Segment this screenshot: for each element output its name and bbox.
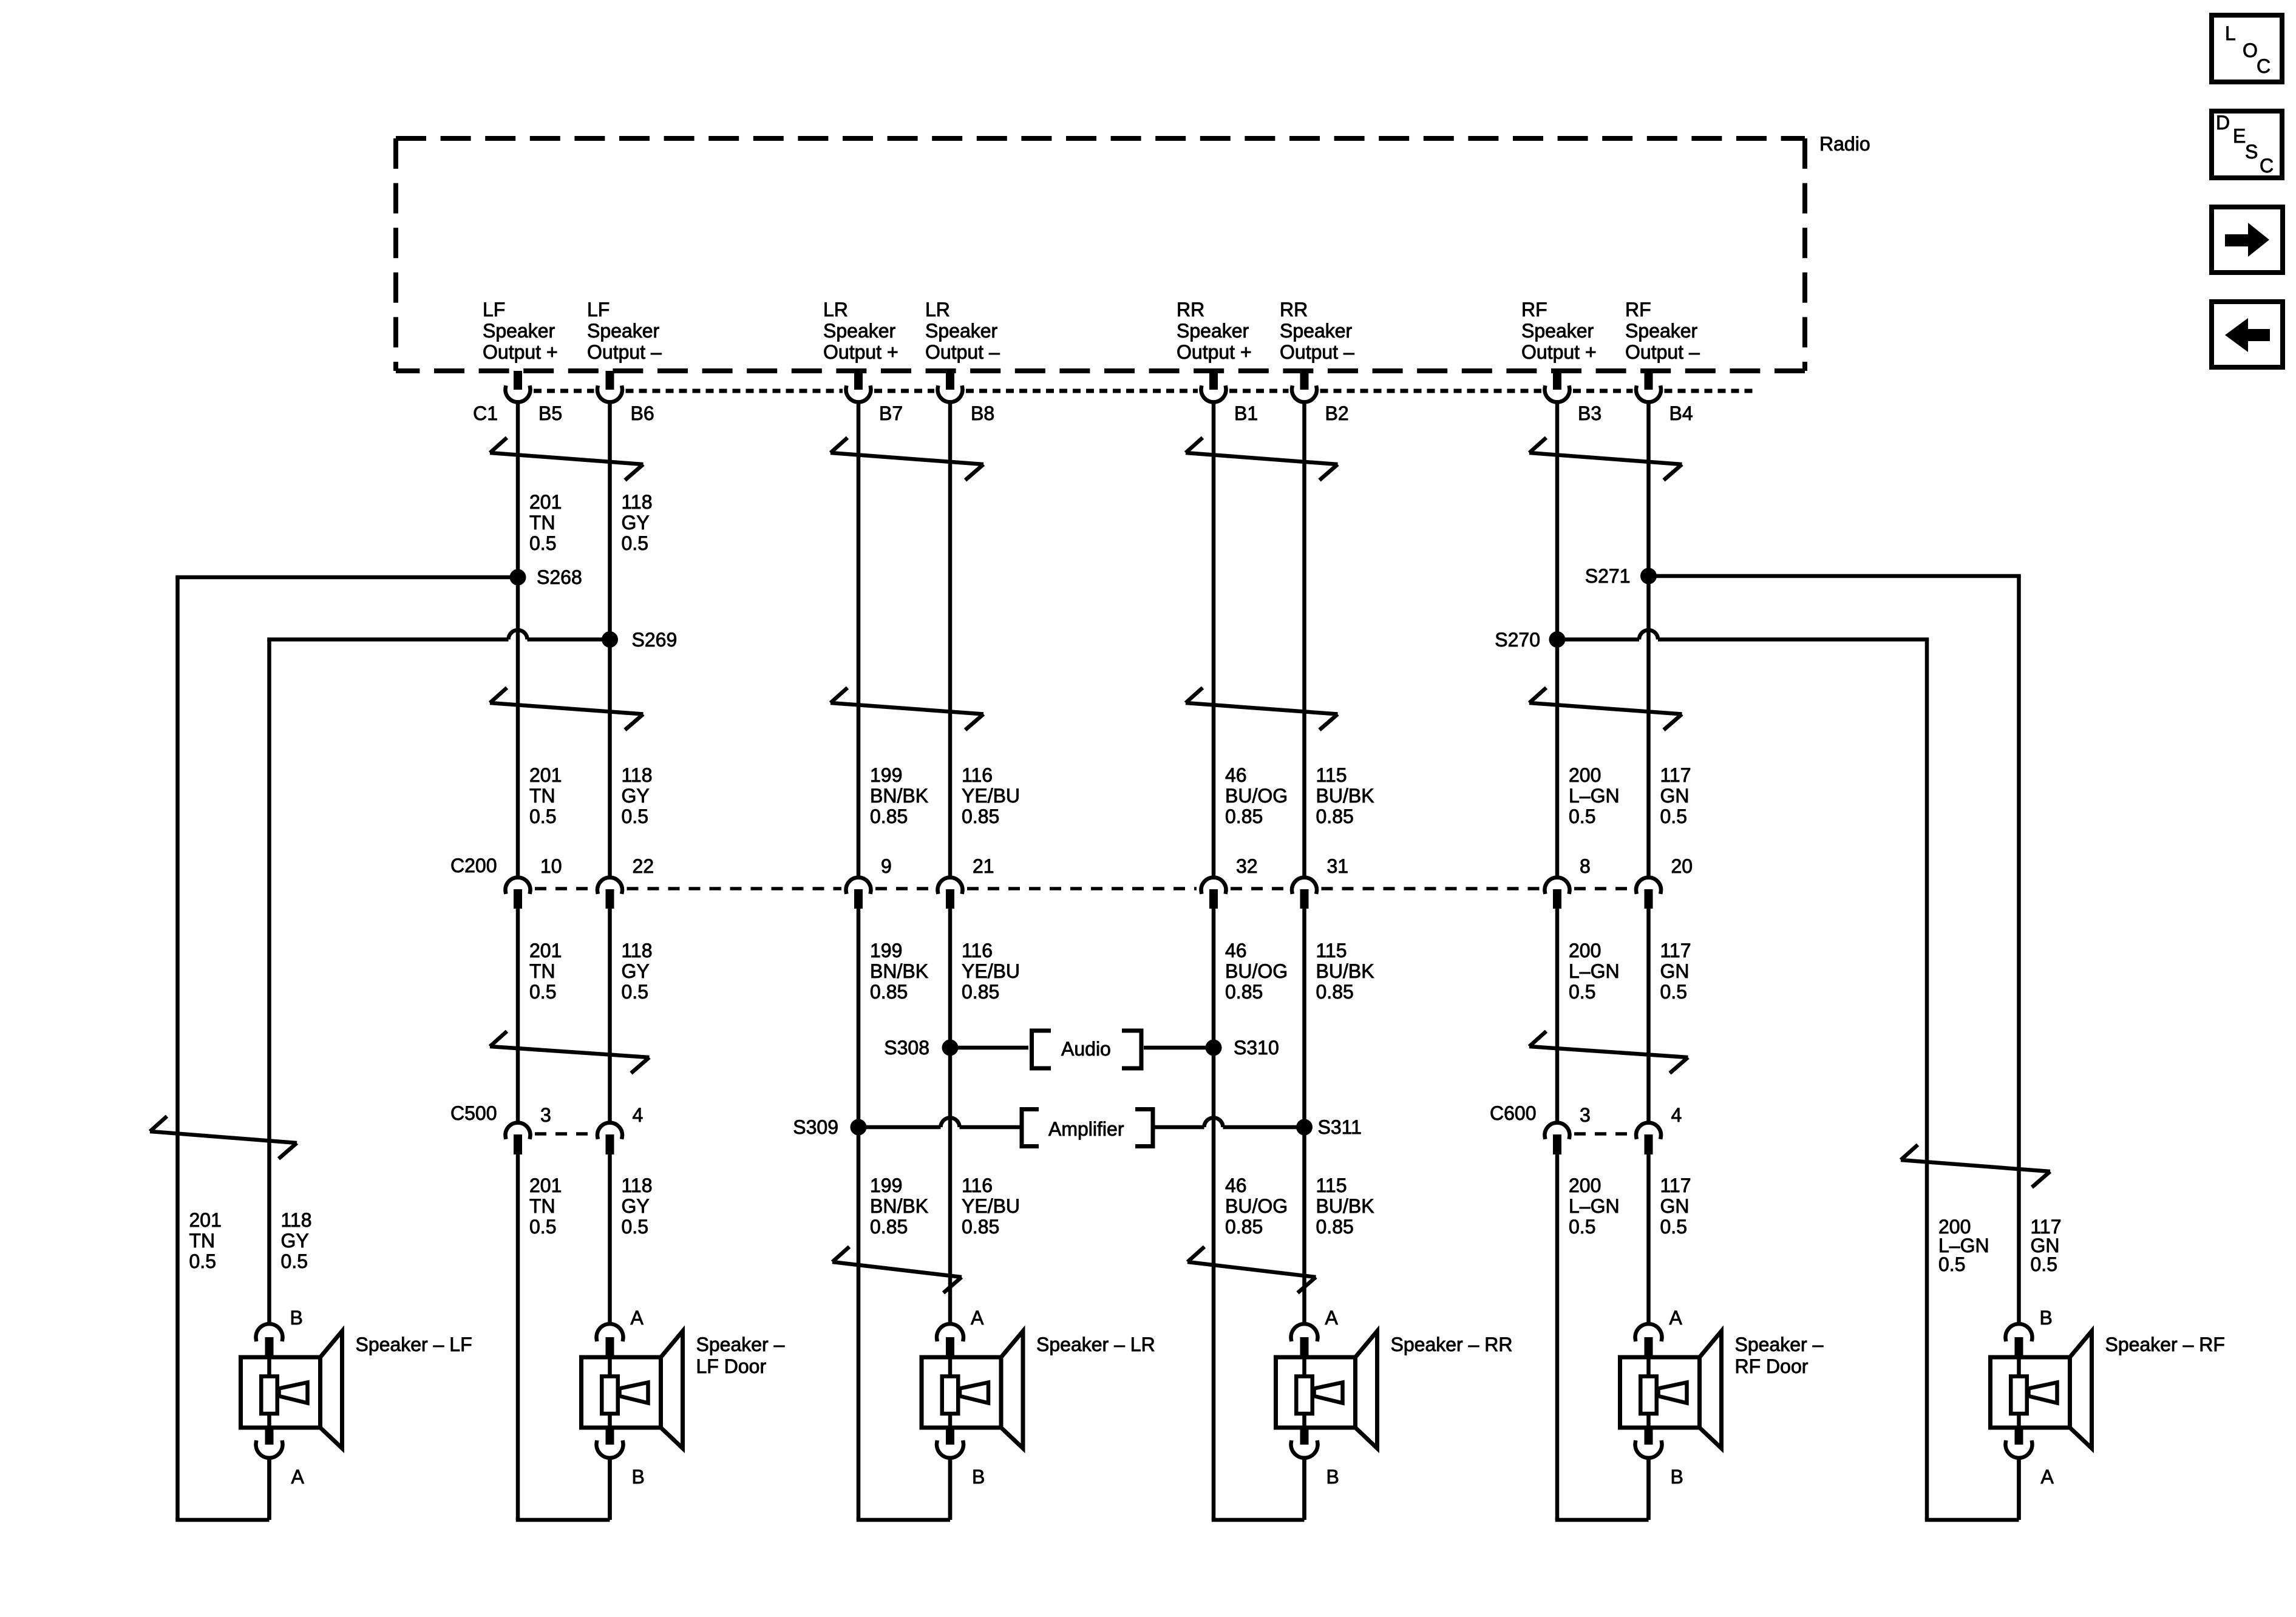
svg-text:A: A <box>2041 1466 2054 1488</box>
svg-text:Output +: Output + <box>823 341 898 363</box>
svg-text:115: 115 <box>1316 764 1347 786</box>
svg-text:YE/BU: YE/BU <box>962 1195 1020 1217</box>
svg-text:10: 10 <box>540 855 562 877</box>
svg-text:116: 116 <box>962 764 993 786</box>
svg-text:S308: S308 <box>884 1037 929 1059</box>
svg-text:L–GN: L–GN <box>1569 1195 1620 1217</box>
svg-text:GY: GY <box>281 1230 309 1252</box>
svg-text:8: 8 <box>1580 855 1591 877</box>
svg-text:31: 31 <box>1327 855 1349 877</box>
svg-text:201: 201 <box>529 764 562 786</box>
svg-text:116: 116 <box>962 940 993 961</box>
svg-text:0.85: 0.85 <box>1316 1216 1354 1238</box>
svg-text:BU/OG: BU/OG <box>1225 960 1288 982</box>
svg-text:E: E <box>2233 125 2246 147</box>
svg-text:GY: GY <box>622 1195 650 1217</box>
svg-text:0.85: 0.85 <box>870 981 908 1003</box>
svg-text:B: B <box>1326 1466 1339 1488</box>
svg-text:C200: C200 <box>450 855 497 876</box>
svg-text:115: 115 <box>1316 940 1347 961</box>
svg-text:0.85: 0.85 <box>1225 1216 1263 1238</box>
svg-text:TN: TN <box>529 785 555 807</box>
svg-text:B: B <box>1671 1466 1683 1488</box>
svg-text:Output +: Output + <box>1521 341 1597 363</box>
svg-text:0.5: 0.5 <box>1569 1216 1595 1238</box>
svg-text:B4: B4 <box>1669 402 1693 424</box>
svg-text:LR: LR <box>823 299 848 320</box>
svg-text:S269: S269 <box>632 629 678 651</box>
svg-text:Speaker: Speaker <box>1177 320 1249 342</box>
svg-text:32: 32 <box>1236 855 1258 877</box>
svg-text:0.85: 0.85 <box>962 1216 999 1238</box>
svg-text:B8: B8 <box>971 402 994 424</box>
svg-text:117: 117 <box>1660 764 1691 786</box>
svg-text:0.5: 0.5 <box>281 1250 308 1272</box>
svg-text:0.5: 0.5 <box>1660 1216 1687 1238</box>
svg-text:A: A <box>631 1307 644 1329</box>
svg-text:Output –: Output – <box>587 341 662 363</box>
svg-text:TN: TN <box>189 1230 216 1252</box>
svg-text:Audio: Audio <box>1061 1038 1111 1060</box>
svg-text:D: D <box>2216 112 2230 134</box>
svg-text:C600: C600 <box>1490 1102 1537 1124</box>
svg-text:L–GN: L–GN <box>1569 960 1620 982</box>
svg-text:0.5: 0.5 <box>1569 981 1595 1003</box>
svg-text:116: 116 <box>962 1175 993 1196</box>
svg-text:GY: GY <box>622 960 650 982</box>
svg-text:Speaker – RF: Speaker – RF <box>2105 1334 2225 1355</box>
svg-text:0.85: 0.85 <box>870 1216 908 1238</box>
svg-text:0.85: 0.85 <box>1316 805 1354 827</box>
svg-text:LF: LF <box>483 299 505 320</box>
svg-text:S311: S311 <box>1318 1116 1362 1138</box>
svg-text:GN: GN <box>1660 785 1690 807</box>
svg-text:B6: B6 <box>631 402 654 424</box>
svg-text:0.5: 0.5 <box>622 1216 648 1238</box>
svg-text:0.85: 0.85 <box>1225 981 1263 1003</box>
svg-text:BU/BK: BU/BK <box>1316 1195 1374 1217</box>
svg-text:LF: LF <box>587 299 610 320</box>
svg-text:B: B <box>2040 1307 2053 1329</box>
svg-text:0.5: 0.5 <box>529 805 556 827</box>
svg-text:46: 46 <box>1225 764 1247 786</box>
svg-text:B5: B5 <box>538 402 562 424</box>
svg-text:0.5: 0.5 <box>1660 805 1687 827</box>
svg-text:B: B <box>972 1466 985 1488</box>
svg-text:Output –: Output – <box>1625 341 1700 363</box>
svg-text:0.5: 0.5 <box>529 532 556 554</box>
svg-text:Output +: Output + <box>1177 341 1252 363</box>
svg-text:C500: C500 <box>450 1102 497 1124</box>
svg-text:YE/BU: YE/BU <box>962 785 1020 807</box>
svg-text:118: 118 <box>281 1209 312 1231</box>
svg-text:RR: RR <box>1177 299 1204 320</box>
svg-text:0.85: 0.85 <box>962 981 999 1003</box>
svg-text:S: S <box>2245 141 2258 163</box>
svg-text:B7: B7 <box>879 402 903 424</box>
svg-text:0.5: 0.5 <box>189 1250 216 1272</box>
svg-text:TN: TN <box>529 1195 555 1217</box>
svg-text:B: B <box>290 1307 303 1329</box>
svg-text:GN: GN <box>1660 1195 1690 1217</box>
svg-text:199: 199 <box>870 1175 902 1196</box>
svg-text:A: A <box>291 1466 305 1488</box>
svg-text:RR: RR <box>1280 299 1308 320</box>
svg-text:0.5: 0.5 <box>622 532 648 554</box>
svg-text:0.85: 0.85 <box>962 805 999 827</box>
svg-text:BU/BK: BU/BK <box>1316 960 1374 982</box>
svg-text:201: 201 <box>529 1175 562 1196</box>
svg-text:46: 46 <box>1225 1175 1247 1196</box>
svg-text:0.85: 0.85 <box>870 805 908 827</box>
svg-text:4: 4 <box>1671 1104 1682 1126</box>
svg-text:S268: S268 <box>537 566 582 588</box>
svg-text:20: 20 <box>1671 855 1693 877</box>
svg-text:BU/OG: BU/OG <box>1225 785 1288 807</box>
svg-text:L: L <box>2225 22 2236 44</box>
svg-text:Speaker –: Speaker – <box>1735 1334 1824 1355</box>
svg-text:0.5: 0.5 <box>529 981 556 1003</box>
svg-text:C1: C1 <box>473 402 498 424</box>
svg-text:RF: RF <box>1521 299 1547 320</box>
svg-text:BN/BK: BN/BK <box>870 960 928 982</box>
svg-text:0.85: 0.85 <box>1316 981 1354 1003</box>
svg-text:21: 21 <box>973 855 994 877</box>
svg-text:Speaker: Speaker <box>925 320 998 342</box>
svg-text:Speaker: Speaker <box>587 320 660 342</box>
svg-text:BU/BK: BU/BK <box>1316 785 1374 807</box>
svg-text:118: 118 <box>622 1175 653 1196</box>
svg-text:BN/BK: BN/BK <box>870 1195 928 1217</box>
svg-text:O: O <box>2243 39 2258 61</box>
svg-text:GN: GN <box>1660 960 1690 982</box>
svg-text:201: 201 <box>529 491 562 513</box>
svg-text:Radio: Radio <box>1819 133 1870 155</box>
svg-text:S271: S271 <box>1585 565 1631 587</box>
svg-text:118: 118 <box>622 764 653 786</box>
svg-text:TN: TN <box>529 960 555 982</box>
svg-text:0.85: 0.85 <box>1225 805 1263 827</box>
svg-text:C: C <box>2257 55 2271 77</box>
svg-text:Speaker –: Speaker – <box>696 1334 785 1355</box>
svg-text:BU/OG: BU/OG <box>1225 1195 1288 1217</box>
svg-text:S310: S310 <box>1234 1037 1279 1059</box>
svg-text:0.5: 0.5 <box>529 1216 556 1238</box>
svg-text:0.5: 0.5 <box>1569 805 1595 827</box>
svg-text:0.5: 0.5 <box>2031 1253 2057 1275</box>
svg-text:C: C <box>2260 155 2274 177</box>
svg-text:B1: B1 <box>1234 402 1258 424</box>
svg-text:0.5: 0.5 <box>622 805 648 827</box>
svg-text:Amplifier: Amplifier <box>1048 1118 1124 1140</box>
svg-text:3: 3 <box>540 1104 551 1126</box>
svg-text:A: A <box>1669 1307 1683 1329</box>
svg-text:YE/BU: YE/BU <box>962 960 1020 982</box>
svg-text:0.5: 0.5 <box>1660 981 1687 1003</box>
svg-text:201: 201 <box>189 1209 222 1231</box>
svg-text:201: 201 <box>529 940 562 961</box>
svg-text:LR: LR <box>925 299 950 320</box>
svg-text:200: 200 <box>1569 940 1601 961</box>
svg-text:RF Door: RF Door <box>1735 1355 1809 1377</box>
svg-text:199: 199 <box>870 940 902 961</box>
svg-text:LF Door: LF Door <box>696 1355 767 1377</box>
svg-text:A: A <box>1325 1307 1339 1329</box>
svg-text:B3: B3 <box>1578 402 1601 424</box>
svg-text:S270: S270 <box>1495 629 1540 651</box>
svg-text:118: 118 <box>622 491 653 513</box>
svg-text:S309: S309 <box>793 1116 838 1138</box>
svg-text:200: 200 <box>1569 1175 1601 1196</box>
svg-text:GY: GY <box>622 512 650 534</box>
svg-text:A: A <box>971 1307 984 1329</box>
svg-text:9: 9 <box>881 855 892 877</box>
svg-text:3: 3 <box>1580 1104 1591 1126</box>
svg-text:Output +: Output + <box>483 341 558 363</box>
svg-text:Speaker: Speaker <box>1280 320 1353 342</box>
svg-text:46: 46 <box>1225 940 1247 961</box>
svg-text:117: 117 <box>1660 1175 1691 1196</box>
svg-text:Speaker – LF: Speaker – LF <box>356 1334 472 1355</box>
svg-text:115: 115 <box>1316 1175 1347 1196</box>
svg-text:TN: TN <box>529 512 555 534</box>
svg-text:200: 200 <box>1569 764 1601 786</box>
svg-text:Output –: Output – <box>925 341 1000 363</box>
svg-text:BN/BK: BN/BK <box>870 785 928 807</box>
svg-text:Speaker: Speaker <box>483 320 555 342</box>
svg-text:22: 22 <box>633 855 654 877</box>
svg-text:Speaker – RR: Speaker – RR <box>1391 1334 1513 1355</box>
svg-text:Output –: Output – <box>1280 341 1354 363</box>
svg-text:Speaker: Speaker <box>1521 320 1594 342</box>
svg-text:B2: B2 <box>1325 402 1349 424</box>
svg-text:Speaker – LR: Speaker – LR <box>1036 1334 1155 1355</box>
svg-text:Speaker: Speaker <box>1625 320 1698 342</box>
svg-text:118: 118 <box>622 940 653 961</box>
svg-text:4: 4 <box>633 1104 644 1126</box>
svg-text:L–GN: L–GN <box>1569 785 1620 807</box>
svg-text:GY: GY <box>622 785 650 807</box>
svg-text:199: 199 <box>870 764 902 786</box>
svg-text:117: 117 <box>1660 940 1691 961</box>
svg-text:0.5: 0.5 <box>622 981 648 1003</box>
svg-text:0.5: 0.5 <box>1938 1253 1965 1275</box>
svg-text:RF: RF <box>1625 299 1651 320</box>
svg-text:Speaker: Speaker <box>823 320 896 342</box>
svg-text:B: B <box>632 1466 645 1488</box>
